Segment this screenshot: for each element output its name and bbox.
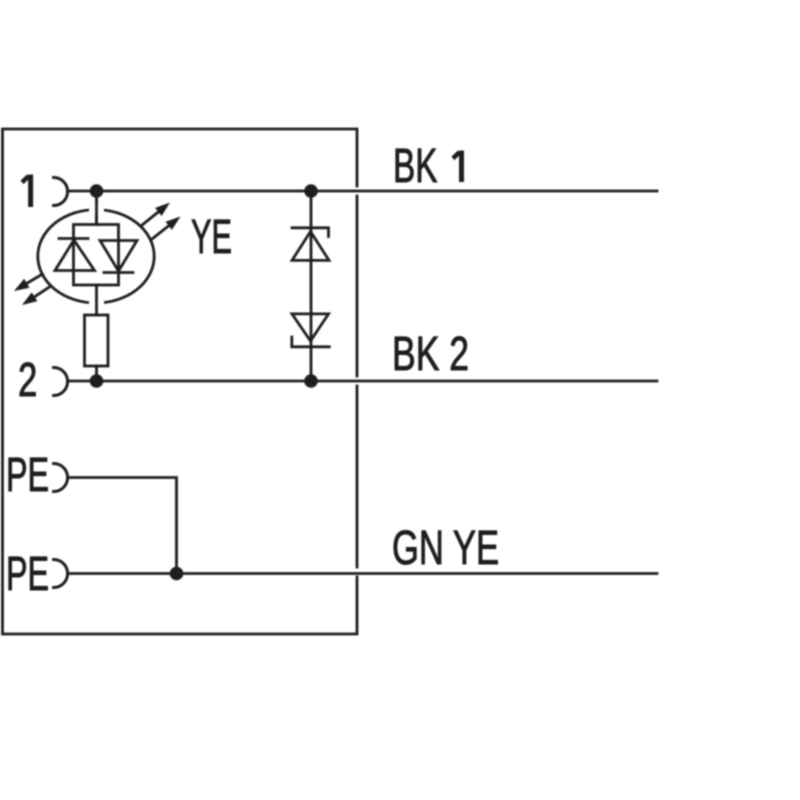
pin 2 socket: [54, 368, 68, 396]
PE2 socket: [54, 560, 68, 588]
svg-text:YE: YE: [191, 209, 232, 264]
LED arrow 1 shaft: [142, 207, 165, 226]
wire resistor to pin2: [95, 366, 98, 381]
junction dot pin2/resistor: [90, 374, 104, 388]
LED arrow heads: [155, 203, 170, 217]
ellipse gaps for wire: [89, 203, 104, 309]
svg-text:BK 2: BK 2: [392, 328, 469, 382]
junction dot BK2/diodes: [304, 374, 318, 388]
svg-text:BK: BK: [393, 138, 438, 193]
LED right diode triangle (down): [100, 241, 137, 272]
LED inner rectangle: [74, 225, 119, 286]
label pin 1 (custom DIN-style digit): [22, 175, 31, 208]
LED right diode cathode bar: [104, 271, 133, 274]
wire BK2: [68, 380, 657, 383]
zener diode D2 triangle (down): [292, 314, 329, 341]
junction dot pin1/LED: [90, 184, 104, 198]
svg-text:PE: PE: [6, 546, 49, 600]
wire pin1 to LED: [95, 191, 98, 225]
wire LED to resistor: [95, 285, 98, 315]
wire pin1 to LED (over gap): [95, 191, 98, 225]
wire GN YE: [68, 572, 657, 575]
pin 1 socket: [54, 178, 68, 206]
resistor R: [85, 315, 109, 366]
LED left diode cathode bar: [59, 237, 88, 240]
wire PE1 to corner: [68, 478, 177, 574]
LED ellipse: [38, 210, 154, 303]
LED arrow 4 shaft: [28, 286, 51, 301]
zener diode D1 bar with tick: [292, 228, 329, 237]
svg-text:PE: PE: [6, 447, 49, 501]
junction dot PE: [170, 567, 184, 581]
connector housing box: [3, 129, 358, 634]
suppressor branch vertical wire: [310, 191, 313, 381]
LED arrow 2 shaft: [152, 221, 175, 239]
zener diode D2 bar with tick: [292, 337, 330, 347]
junction dot BK1/diodes: [304, 184, 318, 198]
LED arrow 3 shaft: [20, 274, 43, 287]
zener diode D1 triangle (up): [292, 232, 329, 261]
LED left diode triangle (up): [55, 240, 95, 271]
svg-text:2: 2: [18, 352, 37, 406]
svg-text:GN YE: GN YE: [392, 520, 499, 574]
PE1 socket: [54, 464, 68, 492]
wire BK1: [68, 190, 657, 193]
